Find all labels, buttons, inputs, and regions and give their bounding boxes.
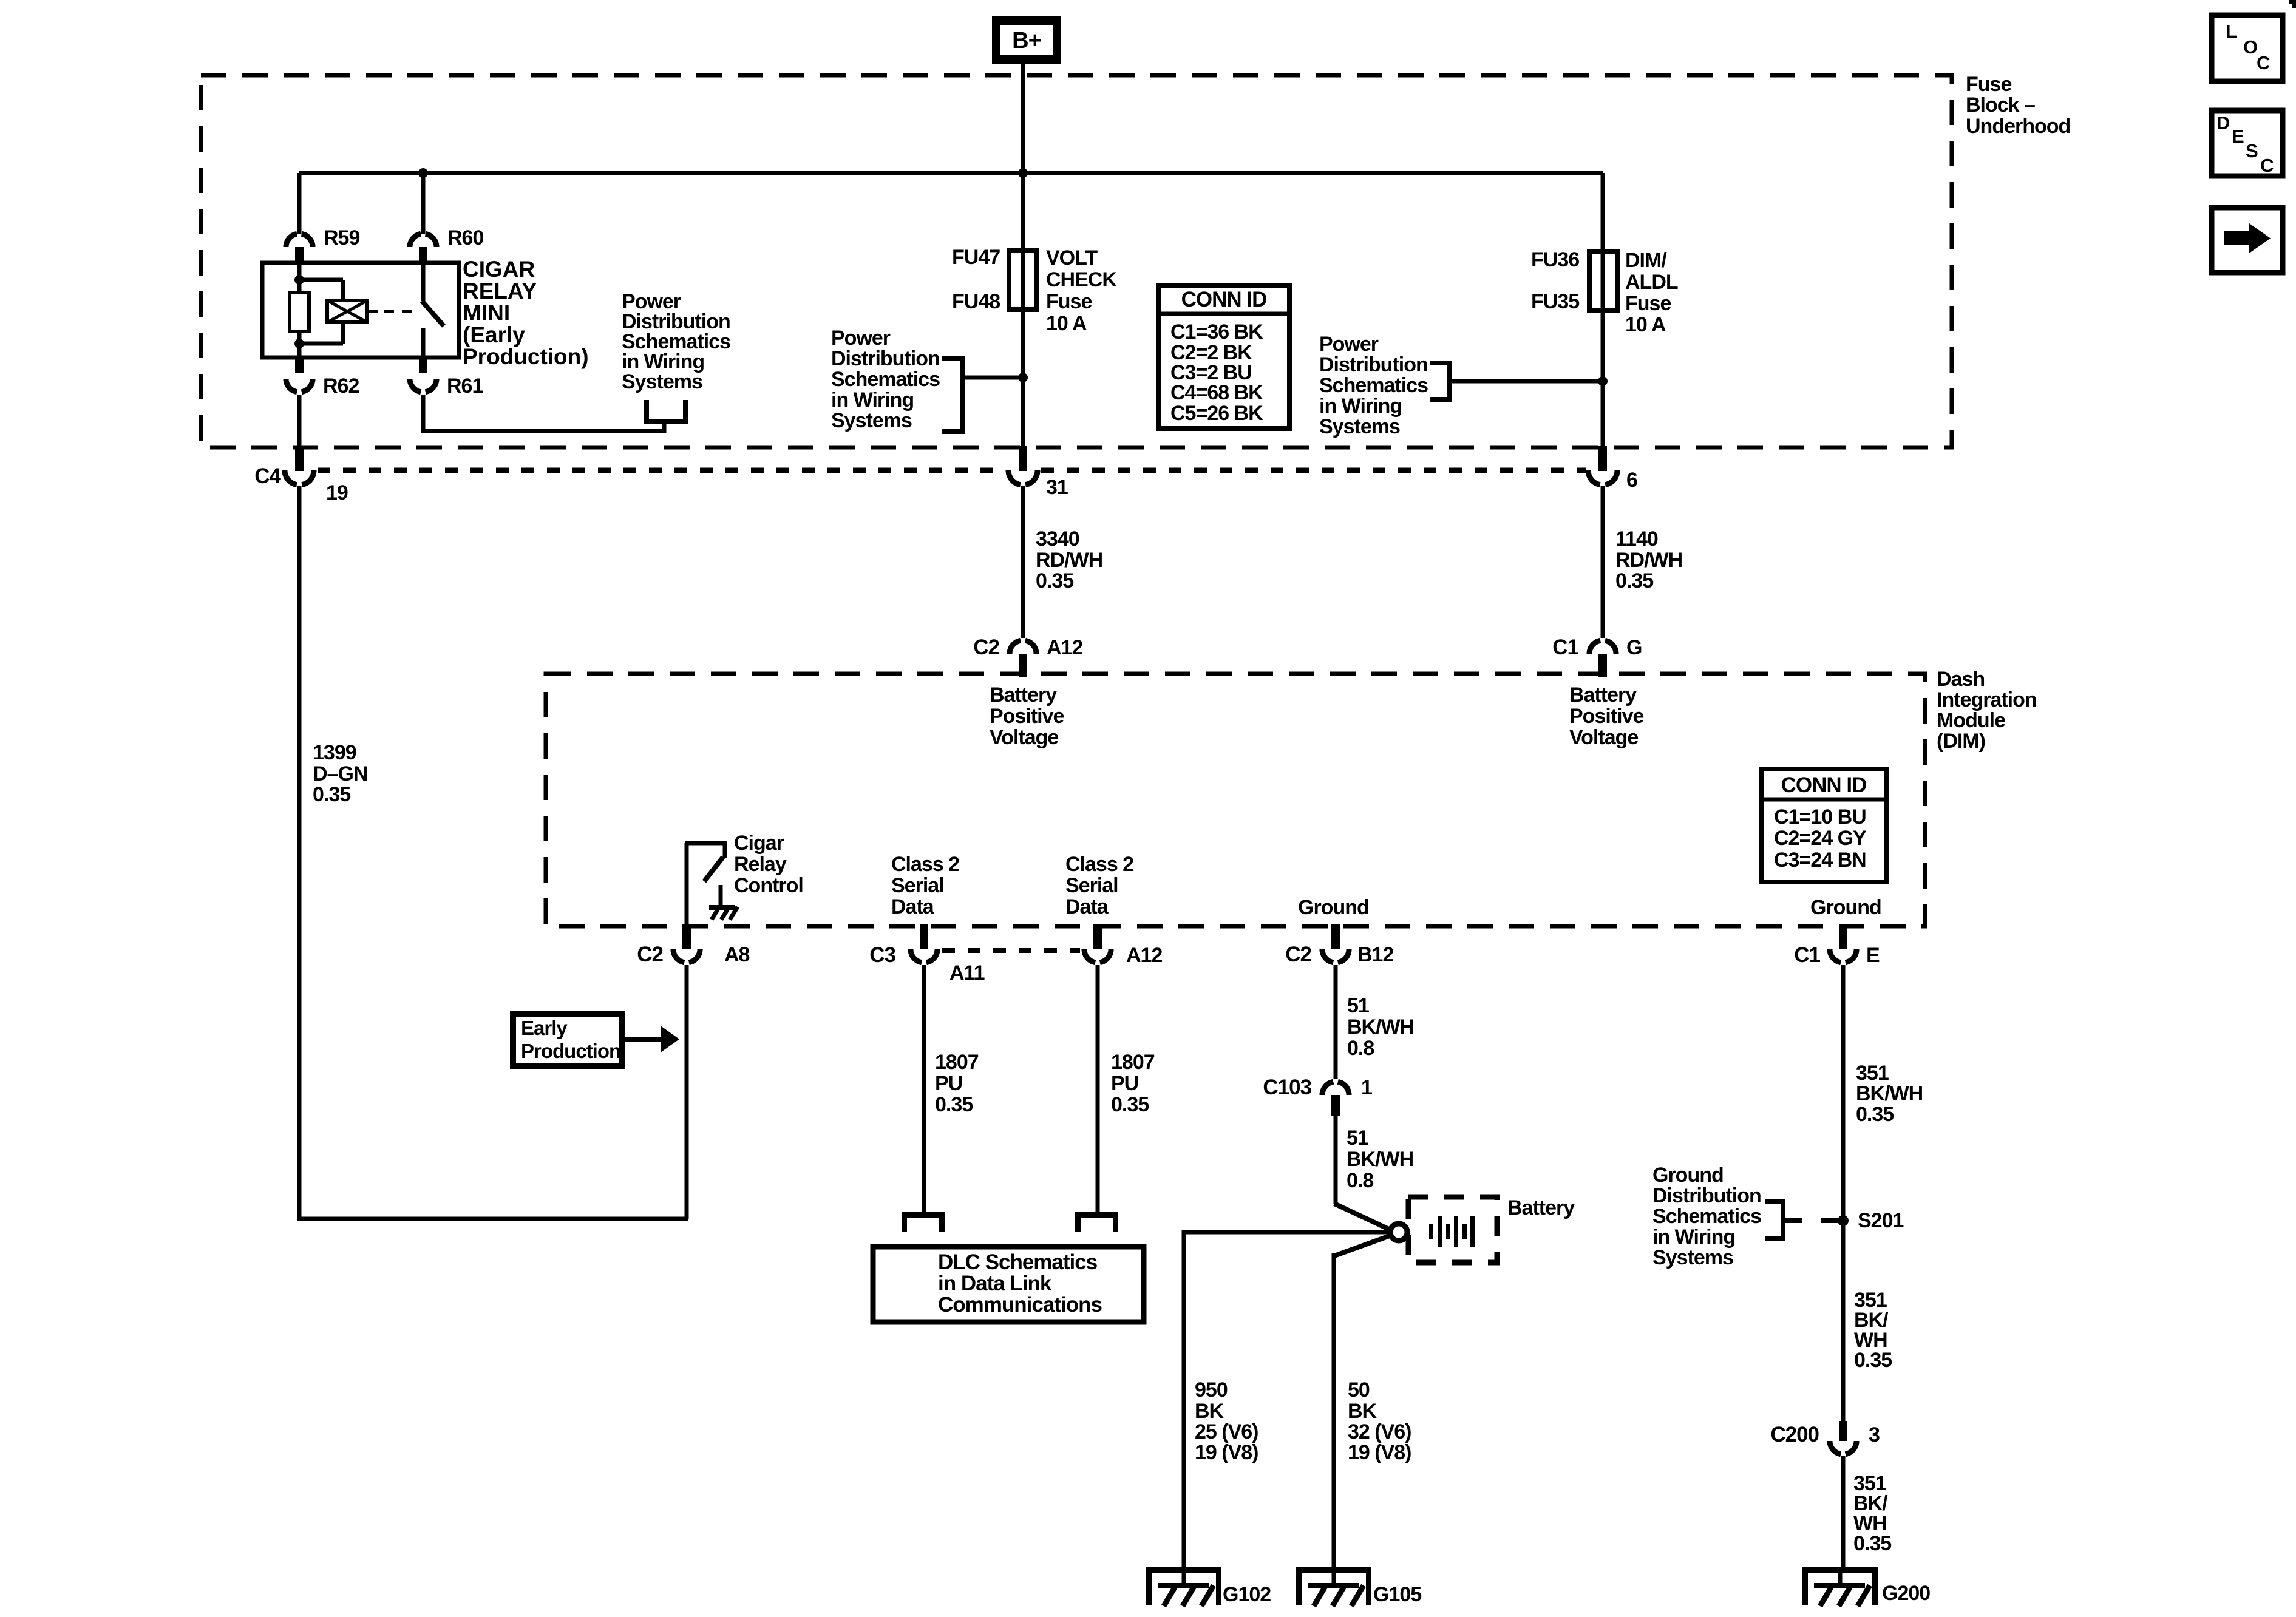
svg-text:10 A: 10 A xyxy=(1046,312,1087,335)
label 3340 RD/WH 0.35 xyxy=(1036,527,1102,592)
svg-text:0.35: 0.35 xyxy=(1856,1103,1894,1126)
svg-text:C: C xyxy=(2260,155,2274,176)
svg-text:Fuse: Fuse xyxy=(1966,73,2011,96)
svg-text:C2: C2 xyxy=(973,636,999,659)
connector C4 pin 19 xyxy=(254,446,348,504)
wire 51 BK/WH lower xyxy=(1334,1116,1391,1230)
svg-text:0.35: 0.35 xyxy=(313,783,350,806)
svg-text:Data: Data xyxy=(891,895,935,918)
svg-text:Positive: Positive xyxy=(1569,705,1643,728)
wire coil top link xyxy=(299,280,343,300)
svg-text:Battery: Battery xyxy=(1569,683,1637,707)
svg-text:3340: 3340 xyxy=(1036,527,1079,551)
svg-text:A8: A8 xyxy=(724,943,750,966)
label Ground Distribution Schematics xyxy=(1652,1164,1761,1269)
svg-text:R59: R59 xyxy=(324,226,359,249)
svg-text:B+: B+ xyxy=(1012,28,1041,53)
svg-text:Voltage: Voltage xyxy=(1569,726,1638,749)
label Power Distribution Schematics 2 xyxy=(831,327,940,432)
svg-text:351: 351 xyxy=(1856,1062,1889,1085)
wire bracket3 to FU35 tap xyxy=(1450,379,1603,384)
svg-text:E: E xyxy=(2232,126,2244,147)
svg-text:PU: PU xyxy=(935,1072,962,1095)
svg-text:Serial: Serial xyxy=(891,874,944,897)
label 351 BK/WH 0.35 upper xyxy=(1856,1062,1923,1126)
connector C1 G DIM xyxy=(1552,636,1642,677)
svg-text:0.35: 0.35 xyxy=(1853,1532,1891,1555)
svg-text:Cigar: Cigar xyxy=(734,832,784,855)
wire cigar relay control loop xyxy=(297,965,688,1219)
svg-text:1: 1 xyxy=(1361,1076,1372,1099)
svg-text:Schematics: Schematics xyxy=(831,368,940,391)
label VOLT CHECK Fuse 10 A xyxy=(1046,246,1117,335)
junction on bus at B+ xyxy=(1018,168,1028,178)
svg-text:C4=68 BK: C4=68 BK xyxy=(1170,381,1263,404)
svg-text:3: 3 xyxy=(1869,1423,1880,1446)
reference bracket power distribution 2 xyxy=(942,359,965,432)
label Ground right xyxy=(1810,896,1881,919)
svg-text:BK: BK xyxy=(1348,1400,1377,1423)
label Battery xyxy=(1507,1196,1575,1219)
label 950 BK 25 (V6) 19 (V8) xyxy=(1195,1378,1258,1464)
connector C103 1 xyxy=(1263,1076,1372,1116)
fuse FU36 DIM/ALDL xyxy=(1589,251,1617,310)
connector C1 E xyxy=(1794,924,1880,967)
svg-text:Battery: Battery xyxy=(1507,1196,1575,1219)
wire 51 BK/WH upper xyxy=(1334,965,1338,1079)
svg-text:C1: C1 xyxy=(1794,943,1820,967)
label 1399 D-GN 0.35 xyxy=(313,741,367,806)
svg-text:Power: Power xyxy=(1319,333,1379,356)
wire 351 BK/WH lower xyxy=(1841,1456,1846,1570)
svg-text:C3=24 BN: C3=24 BN xyxy=(1774,849,1866,872)
svg-text:R62: R62 xyxy=(323,375,359,398)
svg-text:19 (V8): 19 (V8) xyxy=(1195,1441,1258,1464)
fuse block - underhood dashed outline xyxy=(201,75,1952,447)
svg-text:0.35: 0.35 xyxy=(1111,1093,1149,1116)
relay CIGAR RELAY MINI outline xyxy=(262,263,459,358)
reference bracket ground distribution xyxy=(1765,1202,1802,1239)
svg-text:Underhood: Underhood xyxy=(1966,115,2070,138)
svg-text:31: 31 xyxy=(1046,476,1068,499)
label Class 2 Serial Data right xyxy=(1065,853,1133,918)
svg-text:Production: Production xyxy=(521,1040,620,1062)
label DIM/ALDL Fuse 10 A xyxy=(1625,249,1678,336)
svg-text:1807: 1807 xyxy=(935,1051,979,1074)
label 351 BK/WH 0.35 middle xyxy=(1854,1289,1892,1372)
svg-text:10 A: 10 A xyxy=(1625,313,1666,336)
svg-text:Control: Control xyxy=(734,874,803,897)
connector R61 xyxy=(410,358,483,398)
svg-text:BK: BK xyxy=(1195,1400,1224,1423)
svg-text:Distribution: Distribution xyxy=(1319,353,1428,376)
svg-text:Voltage: Voltage xyxy=(990,726,1058,749)
wire bus to R59 xyxy=(297,173,302,234)
svg-text:R60: R60 xyxy=(447,226,483,249)
node B+ battery feed terminal xyxy=(996,21,1057,59)
svg-text:G: G xyxy=(1626,636,1642,659)
wire B+ to bus xyxy=(1021,64,1025,173)
svg-text:A12: A12 xyxy=(1126,944,1162,967)
junction relay coil bottom xyxy=(294,339,304,348)
battery cell symbol xyxy=(1429,1216,1475,1247)
svg-text:0.35: 0.35 xyxy=(935,1093,973,1116)
svg-text:C2: C2 xyxy=(637,943,663,966)
battery dashed outline xyxy=(1408,1197,1497,1263)
wire 3340 RD/WH xyxy=(1021,486,1025,638)
svg-text:R61: R61 xyxy=(447,375,483,398)
svg-text:Ground: Ground xyxy=(1652,1164,1724,1187)
svg-text:Fuse: Fuse xyxy=(1625,292,1671,315)
svg-text:0.8: 0.8 xyxy=(1347,1169,1373,1192)
connector joint dotted line C3-A12 xyxy=(942,948,1080,953)
svg-text:FU36: FU36 xyxy=(1531,248,1579,271)
svg-text:19 (V8): 19 (V8) xyxy=(1348,1441,1411,1464)
svg-text:Class 2: Class 2 xyxy=(891,853,959,876)
svg-text:0.35: 0.35 xyxy=(1036,569,1073,592)
svg-text:Ground: Ground xyxy=(1810,896,1881,919)
wire R62 to C4 xyxy=(297,395,302,447)
wire battery splice to G105 branch xyxy=(1334,1235,1391,1570)
svg-text:1807: 1807 xyxy=(1111,1051,1155,1074)
svg-text:G102: G102 xyxy=(1223,1583,1271,1606)
label 351 BK/WH 0.35 lower xyxy=(1853,1472,1891,1555)
svg-text:in Wiring: in Wiring xyxy=(1652,1225,1735,1249)
svg-text:Early: Early xyxy=(521,1017,568,1039)
wire coil actuator stub xyxy=(367,310,378,313)
label Dash Integration Module (DIM) xyxy=(1937,668,2037,753)
svg-text:C: C xyxy=(2257,52,2270,73)
connector 6 xyxy=(1588,446,1637,492)
svg-text:RELAY: RELAY xyxy=(463,279,537,303)
svg-text:CIGAR: CIGAR xyxy=(463,257,535,282)
connector A12 DIM bottom xyxy=(1084,924,1162,967)
svg-text:Systems: Systems xyxy=(831,409,912,432)
coil relay winding xyxy=(327,300,367,322)
junction FU47 tap xyxy=(1018,373,1028,382)
wire B+ bus xyxy=(299,171,1603,175)
svg-text:950: 950 xyxy=(1195,1378,1228,1402)
connector C2 B12 xyxy=(1285,924,1393,966)
wire 1140 RD/WH xyxy=(1601,486,1605,638)
svg-text:E: E xyxy=(1866,944,1880,967)
svg-text:1399: 1399 xyxy=(313,741,356,764)
svg-text:(Early: (Early xyxy=(463,322,525,347)
connector C2 A12 DIM xyxy=(973,636,1082,677)
svg-text:A11: A11 xyxy=(949,961,985,985)
label FU48 xyxy=(952,290,1000,313)
svg-text:0.35: 0.35 xyxy=(1615,569,1653,592)
svg-text:Systems: Systems xyxy=(622,370,702,393)
connector 31 xyxy=(1008,446,1068,499)
svg-text:32 (V6): 32 (V6) xyxy=(1348,1420,1411,1443)
connector C200 3 xyxy=(1770,1421,1880,1454)
arrow early production xyxy=(622,1026,679,1053)
note box Early Production xyxy=(513,1014,622,1066)
svg-text:BK/WH: BK/WH xyxy=(1347,1015,1414,1039)
svg-text:Systems: Systems xyxy=(1319,415,1400,438)
svg-text:C103: C103 xyxy=(1263,1076,1311,1099)
label 51 BK/WH 0.8 upper xyxy=(1347,994,1414,1060)
svg-text:BK/WH: BK/WH xyxy=(1347,1148,1413,1171)
svg-text:D: D xyxy=(2216,112,2230,134)
svg-text:C1: C1 xyxy=(1552,636,1578,659)
svg-text:CONN ID: CONN ID xyxy=(1181,288,1267,311)
svg-text:Ground: Ground xyxy=(1298,896,1369,919)
svg-text:51: 51 xyxy=(1347,994,1369,1017)
svg-text:C200: C200 xyxy=(1770,1423,1819,1446)
svg-text:B12: B12 xyxy=(1357,943,1393,966)
svg-text:BK/WH: BK/WH xyxy=(1856,1082,1923,1105)
svg-text:A12: A12 xyxy=(1047,636,1082,659)
wire 1807 PU left xyxy=(922,965,926,1213)
wire FU35 to connector 6 xyxy=(1601,310,1605,449)
wire 351 BK/WH upper xyxy=(1841,965,1846,1423)
junction on bus at R60 xyxy=(418,168,428,178)
svg-text:CONN ID: CONN ID xyxy=(1781,773,1867,797)
splice battery ring terminal xyxy=(1390,1224,1407,1241)
svg-text:51: 51 xyxy=(1347,1127,1368,1150)
reference bracket power distribution 3 xyxy=(1430,363,1452,399)
ground chassis internal cigar relay control xyxy=(709,885,738,920)
wire actuator dashed link xyxy=(384,310,415,313)
legend box LOC xyxy=(2212,15,2283,81)
svg-text:19: 19 xyxy=(326,481,348,504)
label Fuse Block - Underhood xyxy=(1966,73,2070,138)
label FU47 xyxy=(952,246,1000,269)
wire 1399 D-GN xyxy=(297,486,302,1219)
svg-text:Distribution: Distribution xyxy=(831,347,940,370)
svg-text:Schematics: Schematics xyxy=(1652,1205,1761,1228)
svg-text:Dash: Dash xyxy=(1937,668,1985,691)
wire coil bottom link xyxy=(299,322,343,344)
label 1807 PU 0.35 left xyxy=(935,1051,979,1116)
svg-text:DIM/: DIM/ xyxy=(1625,249,1667,272)
switch relay contact xyxy=(422,263,444,358)
connector C3 A11 xyxy=(869,924,984,985)
svg-text:CHECK: CHECK xyxy=(1046,268,1117,291)
svg-text:(DIM): (DIM) xyxy=(1937,730,1985,753)
label 1140 RD/WH 0.35 xyxy=(1615,527,1682,592)
svg-text:Integration: Integration xyxy=(1937,688,2037,711)
svg-text:C3: C3 xyxy=(869,943,895,967)
svg-text:50: 50 xyxy=(1348,1378,1370,1402)
wire FU47 to connector 31 xyxy=(1021,310,1025,449)
svg-text:Power: Power xyxy=(831,327,891,350)
svg-text:Data: Data xyxy=(1065,895,1109,918)
wire S201 stub xyxy=(1821,1218,1843,1223)
svg-text:S201: S201 xyxy=(1858,1209,1903,1232)
note box DLC Schematics xyxy=(873,1247,1144,1322)
svg-text:Communications: Communications xyxy=(938,1293,1102,1317)
legend box DESC xyxy=(2212,110,2283,176)
svg-text:FU35: FU35 xyxy=(1531,290,1579,313)
ground G105 xyxy=(1296,1567,1421,1606)
svg-text:G200: G200 xyxy=(1882,1582,1930,1605)
wire relay left branch lower xyxy=(297,331,302,358)
svg-text:Relay: Relay xyxy=(734,853,787,876)
svg-text:in Wiring: in Wiring xyxy=(1319,395,1402,418)
switch cigar relay control driver xyxy=(685,843,727,926)
svg-text:25 (V6): 25 (V6) xyxy=(1195,1420,1258,1443)
wire relay left branch upper xyxy=(297,263,302,293)
svg-text:Production): Production) xyxy=(463,344,589,369)
label 50 BK 32 (V6) 19 (V8) xyxy=(1348,1378,1411,1464)
label Cigar Relay Control xyxy=(734,832,803,897)
svg-text:ALDL: ALDL xyxy=(1625,271,1678,294)
svg-text:C5=26 BK: C5=26 BK xyxy=(1170,402,1263,425)
connector R62 xyxy=(286,358,359,398)
svg-text:C4: C4 xyxy=(254,464,281,488)
terminal bracket DLC right xyxy=(1075,1212,1118,1232)
reference bracket power distribution 1 xyxy=(644,400,688,423)
svg-text:C2=24 GY: C2=24 GY xyxy=(1774,827,1867,850)
svg-text:0.8: 0.8 xyxy=(1347,1037,1374,1060)
label Class 2 Serial Data left xyxy=(891,853,959,918)
wire tap to bracket 2 xyxy=(962,376,1023,380)
svg-text:Schematics: Schematics xyxy=(1319,374,1428,397)
svg-text:VOLT: VOLT xyxy=(1046,246,1098,269)
svg-text:DLC Schematics: DLC Schematics xyxy=(938,1250,1098,1274)
wire bus to FU36 xyxy=(1601,173,1605,311)
wire bus to R60 xyxy=(421,173,426,234)
svg-text:MINI: MINI xyxy=(463,300,510,325)
svg-text:D–GN: D–GN xyxy=(313,762,367,785)
svg-text:1140: 1140 xyxy=(1615,527,1658,551)
wire bus to FU47 xyxy=(1021,173,1025,310)
label Power Distribution Schematics 1 xyxy=(622,290,730,393)
svg-text:FU47: FU47 xyxy=(952,246,1000,269)
svg-text:C1=10 BU: C1=10 BU xyxy=(1774,805,1866,829)
wire battery splice to G102 branch xyxy=(1184,1230,1390,1570)
svg-text:6: 6 xyxy=(1626,469,1637,492)
label Ground left xyxy=(1298,896,1369,919)
label Battery Positive Voltage right xyxy=(1569,683,1643,749)
label CIGAR RELAY MINI (Early Production) xyxy=(463,257,589,369)
terminal bracket DLC left xyxy=(902,1212,945,1232)
svg-text:O: O xyxy=(2243,36,2257,58)
svg-text:C1=36 BK: C1=36 BK xyxy=(1170,320,1263,344)
svg-text:L: L xyxy=(2226,21,2237,42)
junction FU35 tap xyxy=(1598,376,1608,386)
svg-text:Block –: Block – xyxy=(1966,93,2035,117)
svg-text:Distribution: Distribution xyxy=(1652,1184,1761,1207)
connector R60 xyxy=(410,226,483,263)
svg-text:Serial: Serial xyxy=(1065,874,1118,897)
svg-text:0.35: 0.35 xyxy=(1854,1349,1892,1372)
splice S201 xyxy=(1838,1209,1903,1232)
dash integration module dashed outline xyxy=(546,674,1925,926)
ground G102 xyxy=(1146,1567,1271,1606)
junction relay coil top xyxy=(294,275,304,285)
label 1807 PU 0.35 right xyxy=(1111,1051,1155,1116)
label FU35 xyxy=(1531,290,1579,313)
label Power Distribution Schematics 3 xyxy=(1319,333,1428,438)
label Battery Positive Voltage left xyxy=(990,683,1064,749)
svg-text:RD/WH: RD/WH xyxy=(1615,549,1682,572)
table CONN ID fuse block xyxy=(1158,285,1289,429)
ground G200 xyxy=(1802,1567,1930,1606)
label FU36 xyxy=(1531,248,1579,271)
svg-text:C2: C2 xyxy=(1285,943,1311,966)
svg-text:Class 2: Class 2 xyxy=(1065,853,1133,876)
wire R61 to power distribution reference xyxy=(421,395,666,433)
legend box arrow xyxy=(2212,208,2283,273)
svg-text:Positive: Positive xyxy=(990,705,1064,728)
fuse FU47 VOLT CHECK xyxy=(1009,251,1037,310)
svg-text:G105: G105 xyxy=(1373,1583,1421,1606)
svg-text:RD/WH: RD/WH xyxy=(1036,549,1102,572)
resistor relay internal xyxy=(290,293,309,331)
connector C2 A8 xyxy=(637,924,749,966)
label 51 BK/WH 0.8 lower xyxy=(1347,1127,1413,1192)
wire 1807 PU right xyxy=(1096,965,1100,1213)
svg-text:Battery: Battery xyxy=(990,683,1057,707)
svg-text:S: S xyxy=(2246,140,2258,161)
svg-text:Module: Module xyxy=(1937,709,2005,732)
svg-text:FU48: FU48 xyxy=(952,290,1000,313)
svg-text:PU: PU xyxy=(1111,1072,1138,1095)
connector R59 xyxy=(286,226,359,263)
svg-text:Fuse: Fuse xyxy=(1046,290,1092,313)
connector face dotted line C4/31/6 xyxy=(318,468,1586,473)
svg-text:in Data Link: in Data Link xyxy=(938,1272,1052,1295)
svg-text:in Wiring: in Wiring xyxy=(831,388,914,412)
table CONN ID DIM xyxy=(1762,769,1886,882)
svg-text:Systems: Systems xyxy=(1652,1246,1733,1269)
corner mark top right xyxy=(2289,0,2296,8)
